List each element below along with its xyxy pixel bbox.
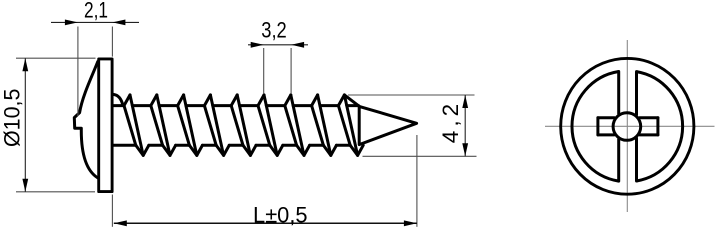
screw head dome profile with recess notch <box>74 62 98 178</box>
dim 2,1 extension line left <box>77 27 79 117</box>
svg-text:Ø10,5: Ø10,5 <box>0 89 25 148</box>
dim 3,2 extension line left <box>263 48 265 93</box>
dim 3,2 dimension line <box>248 44 308 46</box>
end view vertical centerline <box>626 40 628 212</box>
svg-text:3,2: 3,2 <box>261 17 287 42</box>
dim L dimension line <box>114 222 417 224</box>
dim L extension line right <box>416 135 418 227</box>
dim 2,1 arrow right <box>112 20 125 26</box>
thread 5 <box>231 95 237 106</box>
thread 4 <box>204 95 210 106</box>
partial first thread behind flange <box>113 94 123 105</box>
dim 4,2 extension line bottom <box>363 155 477 157</box>
svg-text:2,1: 2,1 <box>84 0 108 22</box>
dim L extension line left <box>111 195 113 227</box>
dim O10,5 extension line bottom <box>16 191 95 193</box>
dim 4,2 dimension line <box>464 95 466 156</box>
recess vertical slot <box>617 71 620 113</box>
recess horizontal slot <box>598 116 615 119</box>
dim 4,2 arrow top <box>462 95 468 108</box>
last crest to cone transition <box>344 95 359 107</box>
thread 6 <box>258 95 264 106</box>
screw head flange <box>99 59 112 192</box>
thread 2 <box>151 95 157 106</box>
dim 2,1 arrow left <box>65 20 78 26</box>
thread 7 <box>285 95 291 106</box>
recess center circle <box>613 113 641 141</box>
dim 3,2 arrow left <box>251 42 264 48</box>
svg-text:L±0,5: L±0,5 <box>253 202 308 227</box>
dim O10,5 dimension line <box>24 58 26 192</box>
dim 4,2 extension line top <box>348 94 475 96</box>
thread 8 <box>312 95 318 106</box>
dim L arrow left <box>114 220 127 226</box>
dim O10,5 extension line top <box>16 57 96 59</box>
dim O10,5 arrow bottom <box>22 179 28 192</box>
thread 3 <box>178 95 184 106</box>
shank root bottom line start <box>113 144 136 147</box>
end view head circle left segment <box>572 72 619 182</box>
dim 3,2 arrow right <box>291 42 304 48</box>
end view horizontal centerline <box>545 125 715 127</box>
thread 1 <box>124 95 130 106</box>
svg-text:4,2: 4,2 <box>438 104 463 144</box>
end view head circle right segment <box>637 72 683 181</box>
end view outer circle (flange) <box>561 58 694 194</box>
dim O10,5 arrow top <box>22 58 28 71</box>
dim 2,1 extension line right <box>111 27 113 57</box>
dim 3,2 extension line right <box>290 48 292 93</box>
dim 2,1 dimension line <box>51 21 139 23</box>
thread 9 <box>338 95 344 106</box>
dim L arrow right <box>404 220 417 226</box>
shank root top line start <box>113 104 124 107</box>
dim 4,2 arrow bottom <box>462 143 468 156</box>
screw cone point <box>359 106 416 144</box>
